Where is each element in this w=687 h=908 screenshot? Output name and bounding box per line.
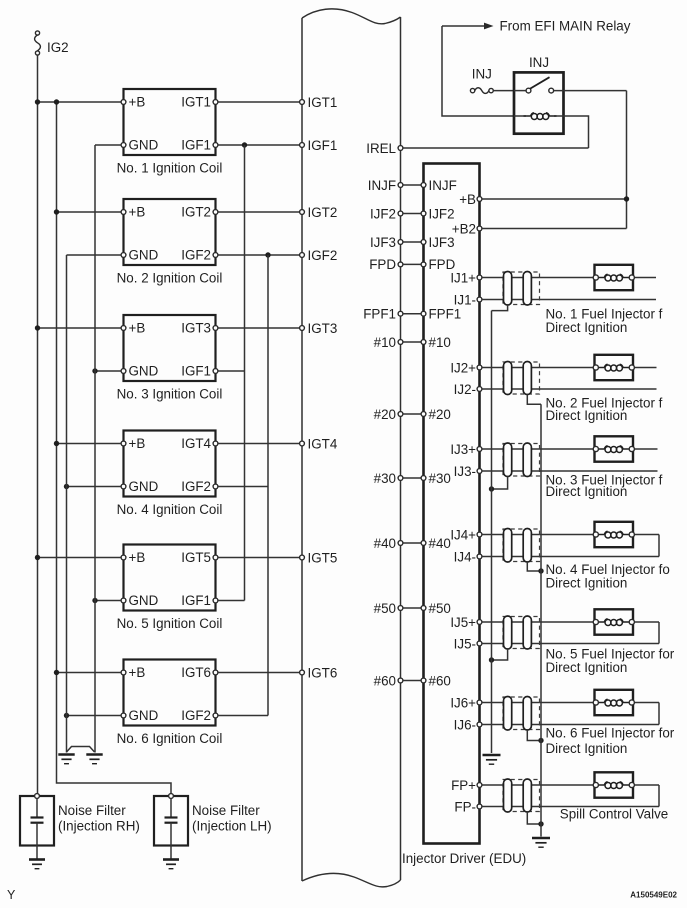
EDU pin IJ4+ — [450, 527, 482, 542]
wire harness FPD to EDU — [403, 263, 421, 265]
pin +B of coil 3 — [121, 326, 126, 331]
wire GND of coil 6 to ground line — [67, 715, 122, 717]
shield ferrite sleeves injector 2 — [504, 362, 532, 395]
harness node #50 — [374, 601, 403, 616]
harness node IGF1 — [300, 138, 338, 153]
junction dot GND coil 3 — [92, 368, 97, 373]
harness node IJF2 — [370, 206, 403, 221]
EDU pin FP+ — [451, 778, 482, 793]
svg-text:Direct Ignition: Direct Ignition — [546, 320, 628, 335]
svg-text:IGT3: IGT3 — [308, 321, 338, 336]
ground (ignition coils right) — [86, 755, 102, 764]
wire IJ5- row — [482, 643, 659, 645]
EDU pin #50 — [421, 601, 451, 616]
svg-text:+B: +B — [129, 321, 146, 336]
svg-text:IGT6: IGT6 — [181, 665, 211, 680]
fuel injector 2 box — [595, 355, 634, 380]
wire relay coil to IREL node — [564, 116, 589, 148]
svg-text:IJ1-: IJ1- — [454, 292, 476, 307]
svg-text:IJF2: IJF2 — [429, 206, 455, 221]
harness node INJF — [368, 178, 403, 193]
shielded pair for injector 4 — [503, 529, 540, 562]
shield ferrite sleeves injector 3 — [504, 443, 532, 477]
harness node #20 — [374, 407, 403, 422]
junction dot drain injector 4 — [538, 568, 543, 573]
wire harness #20 to EDU — [403, 413, 421, 415]
svg-text:Y: Y — [7, 888, 16, 902]
wire injector 3 to right loop — [634, 448, 657, 450]
EDU pin #30 — [421, 471, 451, 486]
shield drain stub injector 1 — [492, 305, 508, 311]
wire injector 5 return loop — [658, 622, 660, 644]
svg-text:IGT5: IGT5 — [308, 550, 338, 565]
svg-text:IGT1: IGT1 — [308, 95, 338, 110]
wire IGF1 coil 3 to IGF1 net — [218, 370, 245, 372]
noise filter RH terminal — [35, 794, 40, 799]
svg-text:Direct Ignition: Direct Ignition — [546, 408, 628, 423]
vertical wire IGF2 net — [267, 255, 269, 716]
svg-text:IJ2-: IJ2- — [454, 382, 476, 397]
wire spill valve return loop — [658, 785, 660, 807]
fuel injector 3 box — [595, 436, 634, 461]
fuel injector 1 box — [595, 265, 634, 290]
ground (noise filter LH) — [163, 860, 179, 869]
wire +B of coil 3 to bus — [38, 327, 122, 329]
spill control valve box — [595, 772, 634, 797]
wire injector 4 to right loop — [634, 534, 659, 536]
EDU pin #60 — [421, 673, 451, 688]
spill control valve terminals — [593, 782, 634, 787]
fusible link IG2 — [35, 31, 41, 55]
pin +B of coil 4 — [121, 441, 126, 446]
harness node FPF1 — [363, 307, 403, 322]
harness node IGT5 — [300, 550, 338, 565]
svg-text:No. 4 Ignition Coil: No. 4 Ignition Coil — [117, 502, 223, 517]
svg-text:+B: +B — [129, 95, 146, 110]
wire IJ3- row — [482, 470, 658, 472]
junction dot GND coil 6 — [64, 713, 69, 718]
wire capacitor to ground (LH) — [170, 823, 172, 859]
junction dot +B coil 5 — [35, 555, 40, 560]
label No. 2 Fuel Injector — [546, 395, 663, 423]
EDU pin IJ6+ — [450, 695, 482, 710]
svg-text:No. 2 Ignition Coil: No. 2 Ignition Coil — [117, 271, 223, 286]
junction dot drain injector 3 — [489, 486, 494, 491]
pin IGF1 of coil 1 — [213, 143, 218, 148]
svg-text:IJ3-: IJ3- — [454, 464, 476, 479]
harness node #60 — [374, 673, 403, 688]
capacitor C (RH) — [31, 818, 44, 823]
svg-text:IGT1: IGT1 — [181, 95, 211, 110]
pin +B of coil 1 — [121, 100, 126, 105]
svg-text:GND: GND — [129, 248, 159, 263]
wire arrow down to relay coil — [442, 26, 514, 116]
svg-text:#10: #10 — [429, 335, 451, 350]
junction dot +B — [624, 196, 629, 201]
label Noise Filter (RH) — [58, 803, 140, 834]
svg-text:No. 5 Ignition Coil: No. 5 Ignition Coil — [117, 616, 223, 631]
svg-text:No. 6 Ignition Coil: No. 6 Ignition Coil — [117, 731, 223, 746]
harness trunk bottom wavy edge — [302, 873, 401, 886]
wire +B of coil 5 to bus — [38, 557, 122, 559]
fuel injector 6 terminals — [593, 700, 634, 705]
svg-text:IJ2+: IJ2+ — [450, 360, 476, 375]
svg-text:GND: GND — [129, 479, 159, 494]
ignition coil T2 box — [124, 199, 216, 265]
wire capacitor to ground (RH) — [36, 823, 38, 859]
svg-text:FPF1: FPF1 — [429, 307, 462, 322]
wire IGF2 coil 4 to IGF2 net — [218, 486, 268, 488]
svg-text:IGT6: IGT6 — [308, 665, 338, 680]
svg-text:IGF2: IGF2 — [181, 248, 211, 263]
svg-text:FP-: FP- — [454, 799, 476, 814]
harness node IGT2 — [300, 205, 338, 220]
EDU pin #20 — [421, 407, 451, 422]
vertical ground line (coils 2,4,6) — [66, 255, 68, 753]
shield drain stub injector 6 — [527, 730, 541, 741]
coil 3 pin labels — [129, 321, 212, 379]
svg-text:IGT2: IGT2 — [181, 205, 211, 220]
label No. 1 Fuel Injector — [546, 307, 663, 336]
junction dot +B coil 6 — [54, 670, 59, 675]
wire spill valve to right loop — [634, 784, 659, 786]
svg-text:#10: #10 — [374, 335, 396, 350]
pin GND of coil 2 — [121, 253, 126, 258]
ground (noise filter RH) — [29, 860, 45, 869]
svg-text:#60: #60 — [374, 673, 396, 688]
ignition coil T4 box — [124, 431, 216, 497]
shielded pair for injector 1 — [503, 272, 540, 305]
svg-text:+B: +B — [129, 436, 146, 451]
pin +B of coil 2 — [121, 210, 126, 215]
fuel injector 5 coil — [597, 621, 604, 623]
wire +B of coil 6 to bus — [57, 672, 122, 674]
svg-text:IGF1: IGF1 — [181, 593, 211, 608]
svg-text:GND: GND — [129, 708, 159, 723]
junction dot drain injector 5 — [489, 657, 494, 662]
svg-text:#50: #50 — [374, 601, 396, 616]
junction dot +B coil 2 — [54, 209, 59, 214]
svg-text:FP+: FP+ — [451, 778, 476, 793]
wire +B bus A (from IG2 down to Noise Filter RH) — [37, 55, 39, 794]
pin GND of coil 1 — [121, 143, 126, 148]
wire IGT2 of coil 2 to harness — [218, 211, 300, 213]
second junction dot on coil1 +B row — [54, 99, 59, 104]
svg-text:Spill Control Valve: Spill Control Valve — [560, 807, 668, 822]
harness node IREL — [366, 141, 403, 156]
fuel injector 2 coil — [597, 367, 604, 369]
svg-text:IGF2: IGF2 — [308, 248, 338, 263]
svg-text:+B: +B — [129, 205, 146, 220]
ground (shield drain B) — [532, 838, 550, 847]
pin GND of coil 6 — [121, 713, 126, 718]
wire IGT5 of coil 5 to harness — [218, 557, 300, 559]
svg-text:#40: #40 — [429, 536, 451, 551]
EDU pin IJ1+ — [450, 270, 482, 285]
pin IGF1 of coil 3 — [213, 369, 218, 374]
EDU pin IJ2- — [454, 382, 482, 397]
wire IGT3 of coil 3 to harness — [218, 327, 300, 329]
shielded pair for injector 6 — [503, 697, 540, 730]
EDU pin IJ1- — [454, 292, 482, 307]
EDU pin +B — [459, 192, 482, 207]
svg-text:+B: +B — [459, 192, 476, 207]
svg-text:Direct Ignition: Direct Ignition — [546, 575, 628, 590]
pin GND of coil 3 — [121, 369, 126, 374]
pin IGT4 of coil 4 — [213, 441, 218, 446]
shield ferrite sleeves injector 1 — [504, 272, 532, 306]
svg-text:#20: #20 — [374, 407, 396, 422]
ignition coil T3 box — [124, 315, 216, 381]
svg-text:IGF2: IGF2 — [181, 708, 211, 723]
fuel injector 2 terminals — [593, 365, 634, 370]
svg-text:+B: +B — [129, 550, 146, 565]
wire +B2 row — [482, 228, 627, 230]
svg-text:GND: GND — [129, 138, 159, 153]
svg-text:IJ1+: IJ1+ — [450, 270, 476, 285]
relay coil L1 — [514, 113, 564, 120]
junction dot drain spill valve — [538, 821, 543, 826]
wire GND of coil 3 to ground line — [95, 370, 121, 372]
ignition coil T1 box — [124, 89, 216, 155]
EDU pin #10 — [421, 335, 451, 350]
pin +B of coil 6 — [121, 670, 126, 675]
pin IGT2 of coil 2 — [213, 210, 218, 215]
svg-text:IJ6+: IJ6+ — [450, 695, 476, 710]
svg-text:IGF1: IGF1 — [308, 138, 338, 153]
shield drain stub injector 4 — [527, 562, 541, 571]
wire injector 4 return loop — [658, 535, 660, 557]
wire IJ1+ row — [482, 277, 594, 279]
svg-text:IJF3: IJF3 — [429, 235, 455, 250]
shielded pair for injector 5 — [503, 617, 540, 649]
Injector Driver EDU box — [424, 164, 480, 844]
harness node IGT3 — [300, 321, 338, 336]
coil 6 pin labels — [129, 665, 212, 723]
shield drain stub spill valve — [527, 812, 541, 824]
svg-text:IG2: IG2 — [47, 40, 69, 55]
vertical wire IGF1 net — [244, 145, 246, 601]
wire injector 2 to right loop — [634, 367, 656, 369]
pin IGF2 of coil 2 — [213, 253, 218, 258]
wire GND of coil 2 to ground line — [67, 254, 122, 256]
wire harness IJF2 to EDU — [403, 213, 421, 215]
fuel injector 5 box — [595, 609, 634, 634]
EDU pin IJ3+ — [450, 442, 482, 457]
svg-text:Direct Ignition: Direct Ignition — [546, 660, 628, 675]
svg-text:IJF3: IJF3 — [370, 235, 396, 250]
wire harness IJF3 to EDU — [403, 241, 421, 243]
svg-text:#30: #30 — [374, 471, 396, 486]
svg-text:IGT4: IGT4 — [181, 436, 211, 451]
spill control valve coil — [597, 784, 604, 786]
relay switch — [526, 77, 554, 93]
wire IJ4+ row — [482, 534, 594, 536]
svg-text:INJ: INJ — [472, 67, 492, 82]
junction dot GND coil 5 — [92, 598, 97, 603]
harness node #30 — [374, 471, 403, 486]
wire IGF2 coil 2 to harness — [218, 254, 300, 256]
wire IGT6 of coil 6 to harness — [218, 672, 300, 674]
svg-text:IJ4-: IJ4- — [454, 549, 476, 564]
junction dot +B coil 3 — [35, 325, 40, 330]
harness trunk top wavy edge — [302, 9, 401, 24]
shield drain line B — [540, 404, 542, 836]
fuel injector 4 coil — [597, 534, 604, 536]
junction dot +B coil 1 — [35, 99, 40, 104]
wire harness #30 to EDU — [403, 477, 421, 479]
fuel injector 1 terminals — [593, 275, 634, 280]
wire GND of coil 1 to ground line — [95, 144, 121, 146]
wire IGF1 coil 1 to harness — [218, 144, 300, 146]
shield ferrite sleeves injector 5 — [504, 616, 532, 649]
pin IGF1 of coil 5 — [213, 598, 218, 603]
svg-text:No. 1 Ignition Coil: No. 1 Ignition Coil — [117, 161, 223, 176]
wire harness trunk right line — [400, 17, 402, 880]
harness node IJF3 — [370, 235, 403, 250]
svg-text:INJ: INJ — [529, 55, 549, 70]
shield drain stub injector 2 — [527, 395, 541, 405]
capacitor C (LH) — [165, 818, 178, 823]
coil 4 pin labels — [129, 436, 212, 494]
harness node IGT1 — [300, 95, 338, 110]
fuse INJ — [470, 88, 493, 94]
wire injector 6 to right loop — [634, 702, 659, 704]
wire IJ2- row — [482, 388, 657, 390]
coil 5 pin labels — [129, 550, 212, 608]
pin IGT3 of coil 3 — [213, 326, 218, 331]
wire +B row — [482, 198, 627, 200]
noise filter LH box — [154, 796, 188, 846]
wire +B of coil 4 to bus — [57, 443, 122, 445]
EDU pin +B2 — [452, 221, 482, 236]
wire terminal to capacitor (LH) — [170, 798, 172, 817]
vertical wire +B feed — [626, 91, 628, 229]
wire IJ1- row — [482, 299, 656, 301]
wire harness #10 to EDU — [403, 341, 421, 343]
svg-text:#30: #30 — [429, 471, 451, 486]
svg-text:FPD: FPD — [369, 257, 396, 272]
svg-text:Injector Driver (EDU): Injector Driver (EDU) — [402, 851, 526, 866]
wire injector 1 to right loop — [634, 277, 656, 279]
wire harness #50 to EDU — [403, 607, 421, 609]
svg-text:IJF2: IJF2 — [370, 206, 396, 221]
fuel injector 6 coil — [597, 702, 604, 704]
shielded pair for injector 3 — [503, 444, 540, 477]
label Noise Filter (LH) — [192, 803, 272, 834]
harness node IGF2 — [300, 248, 338, 263]
pin GND of coil 5 — [121, 598, 126, 603]
svg-text:IGT5: IGT5 — [181, 550, 211, 565]
svg-text:(Injection LH): (Injection LH) — [192, 819, 272, 834]
wire harness trunk left line — [301, 18, 303, 881]
junction dot IGF2 — [265, 252, 270, 257]
wire from EFI MAIN relay (with arrow) — [442, 23, 494, 30]
junction dot +B coil 4 — [54, 441, 59, 446]
junction dot GND coil 4 — [64, 484, 69, 489]
wire fuse INJ to relay box — [493, 90, 514, 92]
ignition coil T6 box — [124, 660, 216, 726]
svg-text:(Injection RH): (Injection RH) — [58, 819, 140, 834]
wire harness #60 to EDU — [403, 680, 421, 682]
wire injector 5 to right loop — [634, 621, 659, 623]
EDU pin IJ5- — [454, 636, 482, 651]
label No. 6 Fuel Injector — [546, 725, 675, 756]
svg-text:#20: #20 — [429, 407, 451, 422]
pin IGT1 of coil 1 — [213, 100, 218, 105]
vertical ground line (coils 1,3,5) — [94, 145, 96, 753]
wire GND of coil 5 to ground line — [95, 600, 121, 602]
junction dot IGF1 — [242, 142, 247, 147]
harness node FPD — [369, 257, 403, 272]
svg-text:INJF: INJF — [368, 178, 396, 193]
wire harness FPF1 to EDU — [403, 313, 421, 315]
pin IGT6 of coil 6 — [213, 670, 218, 675]
svg-text:Noise Filter: Noise Filter — [192, 803, 260, 818]
shield ferrite sleeves injector 6 — [504, 697, 532, 731]
svg-text:#60: #60 — [429, 673, 451, 688]
wire GND of coil 4 to ground line — [67, 486, 122, 488]
wire harness #40 to EDU — [403, 542, 421, 544]
svg-text:IGT2: IGT2 — [308, 205, 338, 220]
EDU pin #40 — [421, 536, 451, 551]
svg-text:IJ5-: IJ5- — [454, 636, 476, 651]
noise filter LH terminal — [169, 794, 174, 799]
EDU pin IJ5+ — [450, 615, 482, 630]
wire IJ5+ row — [482, 621, 594, 623]
wire IGT4 of coil 4 to harness — [218, 443, 300, 445]
svg-text:IREL: IREL — [366, 141, 396, 156]
EDU pin IJ2+ — [450, 360, 482, 375]
ground (shield drain A) — [483, 755, 501, 764]
pin +B of coil 5 — [121, 555, 126, 560]
pin IGF2 of coil 4 — [213, 484, 218, 489]
shield ferrite sleeves injector 4 — [504, 529, 532, 563]
svg-text:FPF1: FPF1 — [363, 307, 396, 322]
svg-text:IGF1: IGF1 — [181, 138, 211, 153]
wire IJ3+ row — [482, 448, 594, 450]
coil 2 pin labels — [129, 205, 212, 263]
ground (ignition coils left) — [58, 755, 74, 764]
fuel injector 1 coil — [597, 277, 604, 279]
fuel injector 6 box — [595, 690, 634, 715]
shielded pair for injector 2 — [503, 362, 540, 394]
svg-text:A150549E02: A150549E02 — [630, 891, 677, 900]
wire +B bus B (down, then right to Noise Filter LH) — [57, 102, 172, 794]
EDU pin FPD — [421, 257, 456, 272]
ignition coil T5 box — [124, 545, 216, 611]
svg-text:Direct Ignition: Direct Ignition — [546, 741, 628, 756]
harness node #40 — [374, 536, 403, 551]
noise filter RH box — [20, 796, 54, 846]
wire IJ4- row — [482, 556, 659, 558]
label No. 5 Fuel Injector — [546, 647, 675, 676]
wire +B of coil 2 to bus — [57, 211, 122, 213]
svg-text:Noise Filter: Noise Filter — [58, 803, 126, 818]
wire FP+ row — [482, 784, 594, 786]
EDU pin IJ6- — [454, 717, 482, 732]
wire IGF1 coil 5 to IGF1 net — [218, 600, 245, 602]
svg-text:INJF: INJF — [429, 178, 457, 193]
shielded pair for injector FP — [503, 780, 540, 812]
wire IREL row — [403, 147, 589, 149]
EDU pin INJF — [421, 178, 457, 193]
EDU pin IJ3- — [454, 464, 482, 479]
fuel injector 3 coil — [597, 448, 604, 450]
label No. 3 Fuel Injector — [546, 473, 663, 500]
wire IJ6+ row — [482, 702, 594, 704]
svg-text:#40: #40 — [374, 536, 396, 551]
